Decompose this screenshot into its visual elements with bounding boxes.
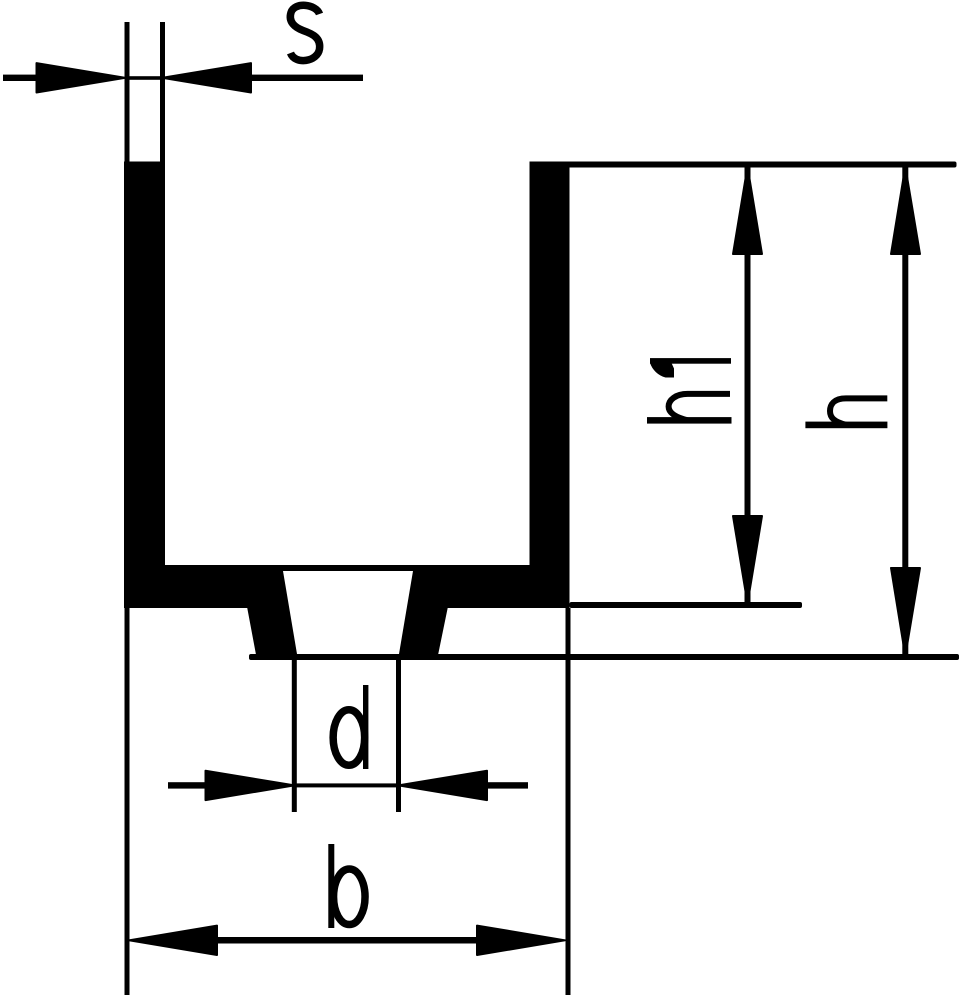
h label [805, 398, 887, 428]
s dimension line right stub [248, 75, 363, 81]
s label [290, 5, 319, 60]
d arrow right [399, 771, 488, 800]
h arrow down [891, 568, 920, 656]
s dimension line middle thin [127, 76, 163, 80]
d label [333, 685, 368, 769]
s arrow left [37, 63, 126, 92]
d extension line left [292, 654, 297, 812]
s arrow right [162, 63, 251, 92]
h arrow up [891, 167, 920, 255]
b extension line left [125, 608, 130, 995]
b arrow right [477, 926, 565, 955]
b arrow left [129, 926, 217, 955]
h1 label [647, 358, 732, 424]
b extension line right [566, 608, 571, 995]
d dimension line middle thin [294, 783, 398, 787]
s extension line right [160, 22, 165, 162]
h1 arrow up [733, 167, 762, 255]
b dimension line [210, 937, 480, 944]
d dimension line right stub [487, 782, 528, 788]
top extension line for h and h1 [530, 162, 957, 168]
slot opening [283, 571, 413, 654]
profile bottom plate [124, 565, 570, 608]
profile left wall [124, 162, 165, 609]
profile right wall [530, 162, 570, 609]
d dimension line left stub [168, 782, 208, 788]
s dimension line left stub [3, 75, 37, 81]
s extension line left [125, 22, 130, 162]
h dimension line [902, 164, 908, 657]
h bottom extension line [249, 654, 959, 660]
h1 dimension line [745, 164, 751, 606]
d arrow left [206, 771, 295, 800]
h1 bottom extension line [570, 602, 803, 608]
profile foot [247, 604, 449, 660]
b label [328, 844, 365, 928]
d extension line right [396, 654, 401, 812]
h1 arrow down [733, 516, 762, 604]
